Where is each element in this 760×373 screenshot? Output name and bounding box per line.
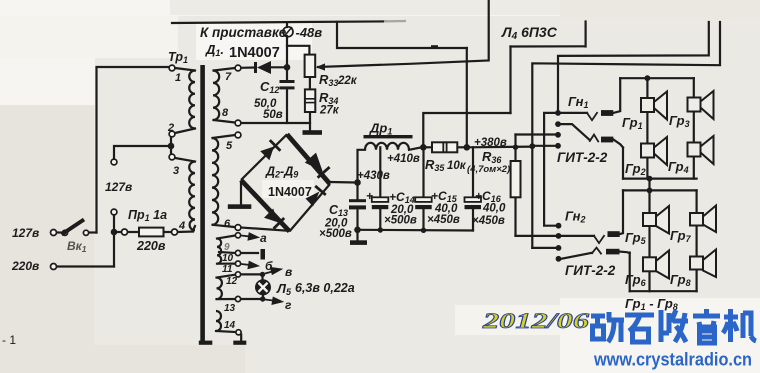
svg-text:К приставке: К приставке xyxy=(200,25,287,40)
svg-text:8: 8 xyxy=(222,107,229,119)
svg-text:2012/06: 2012/06 xyxy=(482,308,589,333)
svg-text:27к: 27к xyxy=(319,105,340,117)
svg-text:+430в: +430в xyxy=(357,170,390,182)
svg-text:+410в: +410в xyxy=(387,153,420,165)
svg-text:127в: 127в xyxy=(105,180,132,194)
svg-text:2: 2 xyxy=(167,122,174,134)
svg-text:Д1.: Д1. xyxy=(205,42,224,58)
svg-text:11: 11 xyxy=(222,264,233,275)
svg-text:7: 7 xyxy=(225,71,232,83)
svg-text:в: в xyxy=(285,265,292,279)
svg-text:+: + xyxy=(366,189,373,203)
svg-text:3: 3 xyxy=(173,165,179,177)
svg-text:220в: 220в xyxy=(136,239,166,253)
svg-text:1N4007: 1N4007 xyxy=(229,45,280,61)
svg-text:50в: 50в xyxy=(263,109,283,121)
svg-text:220в: 220в xyxy=(11,259,39,273)
svg-text:б: б xyxy=(265,259,273,273)
svg-text:127в: 127в xyxy=(12,226,39,240)
svg-text:×500в: ×500в xyxy=(319,228,352,240)
svg-text:13: 13 xyxy=(224,303,236,314)
svg-text:а: а xyxy=(260,231,267,245)
svg-text:12: 12 xyxy=(226,276,238,287)
svg-text:1: 1 xyxy=(175,72,181,84)
svg-text:14: 14 xyxy=(224,320,236,331)
svg-text:40,0: 40,0 xyxy=(482,203,506,215)
svg-text:×450в: ×450в xyxy=(472,215,505,227)
svg-text:22к: 22к xyxy=(337,75,358,87)
svg-text:(4,7ом×2): (4,7ом×2) xyxy=(467,164,510,175)
svg-text:1N4007: 1N4007 xyxy=(268,185,312,199)
svg-text:www.crystalradio.cn: www.crystalradio.cn xyxy=(593,350,752,370)
svg-text:5: 5 xyxy=(226,140,233,152)
svg-text:10к: 10к xyxy=(447,160,467,172)
svg-text:г: г xyxy=(285,298,292,312)
svg-text:Л4 6П3С: Л4 6П3С xyxy=(501,24,558,42)
svg-text:6,3в 0,22а: 6,3в 0,22а xyxy=(295,281,355,295)
svg-text:-48в: -48в xyxy=(296,25,323,40)
svg-text:4: 4 xyxy=(178,220,185,232)
svg-text:ГИТ-2-2: ГИТ-2-2 xyxy=(557,150,608,165)
svg-text:10: 10 xyxy=(222,253,234,264)
svg-text:ГИТ-2-2: ГИТ-2-2 xyxy=(565,263,616,278)
svg-text:×500в: ×500в xyxy=(384,215,417,227)
svg-text:+380в: +380в xyxy=(474,137,507,149)
svg-text:9: 9 xyxy=(224,242,230,253)
svg-text:Гр1 - Гр8: Гр1 - Гр8 xyxy=(625,296,678,312)
svg-text:×450в: ×450в xyxy=(427,214,460,226)
svg-text:- 1: - 1 xyxy=(2,333,16,347)
svg-text:6: 6 xyxy=(224,218,231,230)
